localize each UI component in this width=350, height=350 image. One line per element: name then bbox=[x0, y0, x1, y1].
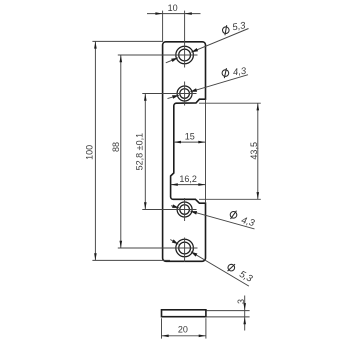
svg-text:3: 3 bbox=[236, 299, 246, 304]
dimension 20 arrows bbox=[162, 335, 169, 338]
dimension 88 line bbox=[120, 55, 122, 248]
dimension 43,5 line bbox=[257, 103, 259, 199]
dimension 43,5 arrows bbox=[257, 103, 260, 110]
dimension 100 arrows bbox=[94, 41, 97, 48]
latch cutout right reference edge (extension line) bbox=[205, 99, 207, 203]
leader arrows hole 4 (D5,3) bbox=[172, 239, 179, 244]
dimension 15 arrows bbox=[174, 141, 181, 144]
hole 3 (D4.3 countersunk) bbox=[177, 202, 192, 217]
leader line hole 3 (D4,3) bbox=[190, 211, 254, 229]
hole 1 (top, D5.3 countersunk) bbox=[176, 46, 194, 64]
dimension 10 extension line (plate left edge) bbox=[162, 11, 164, 42]
dimension 10 line bbox=[147, 13, 201, 15]
dimension 20 extension lines bbox=[161, 318, 163, 338]
leader arrows hole 3 (D4,3) bbox=[172, 204, 179, 208]
leader line hole 2 (D4,3) tail bbox=[168, 95, 179, 98]
hole 1 (top, D5.3 countersunk) centerlines bbox=[184, 11, 186, 68]
svg-text:20: 20 bbox=[178, 325, 188, 335]
leader line hole 1 (D5,3) bbox=[191, 29, 248, 53]
dimension 20 line bbox=[162, 335, 206, 337]
leader arrows hole 2 (D4,3) bbox=[172, 95, 179, 99]
label diameter symbol hole 2 (D4,3) bbox=[221, 68, 229, 78]
dimension 52,8 arrows bbox=[144, 94, 147, 101]
hole 4 (bottom, D5.3 countersunk) bbox=[176, 239, 194, 257]
svg-text:16,2: 16,2 bbox=[179, 174, 197, 184]
dimension 100 line bbox=[94, 41, 96, 260]
dimension 100 extension lines bbox=[92, 40, 162, 42]
hole 2 (D4.3 countersunk) centerlines bbox=[184, 82, 186, 106]
hole 3 (D4.3 countersunk) centerlines bbox=[184, 198, 186, 221]
svg-text:4,3: 4,3 bbox=[232, 66, 247, 79]
svg-text:100: 100 bbox=[84, 145, 94, 160]
label diameter symbol hole 1 (D5,3) bbox=[222, 25, 230, 36]
leader line hole 2 (D4,3) bbox=[190, 75, 248, 92]
hole 2 (D4.3 countersunk) bbox=[177, 86, 192, 101]
dimension 16,2 line bbox=[171, 184, 206, 186]
dimension 88 arrows bbox=[120, 55, 123, 62]
dimension 15 line bbox=[174, 141, 206, 143]
leader line hole 1 (D5,3) tail bbox=[166, 58, 178, 63]
dimension 16,2 arrows bbox=[171, 183, 178, 186]
label diameter symbol hole 3 (D4,3) bbox=[229, 209, 238, 220]
plate faceplate outline (front view) bbox=[163, 42, 206, 262]
dimension 3 arrows bbox=[243, 303, 246, 310]
svg-text:52,8 ±0,1: 52,8 ±0,1 bbox=[135, 133, 145, 170]
svg-text:10: 10 bbox=[168, 3, 178, 13]
hole 4 (bottom, D5.3 countersunk) centerlines bbox=[184, 238, 186, 263]
dimension 43,5 extension lines bbox=[199, 102, 261, 104]
svg-text:15: 15 bbox=[185, 131, 195, 141]
leader line hole 4 (D5,3) bbox=[191, 252, 249, 286]
dimension 3 extension lines bbox=[207, 310, 250, 312]
dimension 52,8 line bbox=[144, 94, 146, 210]
label diameter symbol hole 4 (D5,3) bbox=[226, 262, 236, 274]
faceplate side view (thickness profile) bbox=[162, 310, 206, 317]
dimension 10 arrows bbox=[155, 12, 162, 15]
leader arrows hole 1 (D5,3) bbox=[171, 58, 178, 62]
svg-text:88: 88 bbox=[111, 142, 121, 152]
svg-text:43,5: 43,5 bbox=[249, 142, 259, 160]
dimension 3 line bbox=[244, 296, 246, 331]
leader line hole 3 (D4,3) tail bbox=[171, 206, 179, 208]
leader line hole 4 (D5,3) tail bbox=[170, 240, 178, 245]
